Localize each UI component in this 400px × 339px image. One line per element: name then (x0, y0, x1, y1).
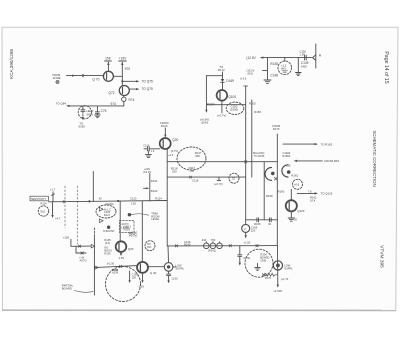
junction x-tick on V4 (274, 177, 277, 180)
wire +15V rail (vertical x=122.3) (121, 62, 123, 85)
dashed note circle on wire y177 (229, 173, 239, 183)
svg-text:C148: C148 (270, 74, 278, 78)
junction x-tick on bottom bus (right) (229, 245, 231, 247)
wire into Q20 base (164, 128, 166, 138)
capacitor C150 on rail (300, 50, 307, 60)
jack feed from bottom bus (167, 246, 170, 263)
wire Q100 collector right (206, 104, 245, 106)
svg-text:LEVEL: LEVEL (151, 217, 160, 221)
svg-text:S183: S183 (78, 124, 85, 128)
svg-text:(1000): (1000) (230, 108, 238, 112)
svg-text:SUPPL: SUPPL (284, 266, 293, 270)
svg-text:D169: D169 (226, 79, 234, 83)
svg-text:SENSITIVITY: SENSITIVITY (31, 198, 47, 201)
wire arrow FROM R158 (points left) (294, 159, 340, 163)
wire y=219.8 between rails (246, 219, 278, 221)
svg-text:Q30: Q30 (128, 247, 134, 251)
resistor R148 branch (263, 58, 279, 80)
svg-text:(40.2): (40.2) (129, 232, 136, 236)
capacitor C116 at Q20 left (143, 143, 160, 153)
resistor R118 label (171, 166, 178, 173)
svg-text:R121: R121 (151, 179, 158, 183)
wire Q120 collector (290, 189, 292, 200)
label C126/R127 (104, 207, 111, 217)
label R162 10.4 (310, 196, 317, 203)
wire stub below (x=52.5) with arrow (51, 202, 61, 221)
svg-text:C149: C149 (301, 61, 309, 65)
capacitor on wire y=219.8 (left) (254, 218, 261, 226)
transistor Q100 (217, 90, 228, 101)
wire R172 to diode (222, 72, 224, 79)
zener R117 above bus (50, 187, 56, 201)
svg-text:C120: C120 (130, 197, 137, 201)
label FROM WIRE (52, 73, 61, 80)
svg-text:TO Q84: TO Q84 (56, 102, 67, 106)
svg-text:+1.5: +1.5 (168, 153, 174, 157)
wire Q40 collector from bus (141, 201, 143, 262)
dashed thermal circle (278, 58, 292, 75)
svg-text:220: 220 (251, 229, 256, 233)
wire Q100 left branch (inverted U) (205, 76, 222, 113)
transistor arc Q110b (282, 164, 291, 177)
label BOARD GND (260, 252, 269, 262)
value label +15V (above Q72 rail) (119, 57, 128, 62)
label FROM R175 (272, 124, 281, 131)
wire y=177 (167, 176, 246, 178)
svg-text:Q120: Q120 (297, 209, 304, 213)
svg-text:SINK: SINK (87, 112, 94, 116)
svg-text:R170: R170 (265, 276, 272, 280)
label PARTIAL BOARD with callout (62, 283, 93, 292)
junction dot on bus (117, 200, 119, 202)
label FROM R120 (above Q20) (160, 121, 169, 128)
svg-text:(+1.70: (+1.70 (281, 277, 289, 281)
svg-text:100: 100 (132, 275, 137, 279)
capacitor C142 branch below bus (238, 246, 250, 266)
transistor Q70 (103, 71, 113, 81)
svg-text:-1.5V: -1.5V (138, 284, 145, 288)
potentiometer b (210, 242, 216, 249)
capacitor below jack (167, 271, 178, 283)
svg-text:(R141): (R141) (208, 249, 216, 253)
label C139 R140 (184, 240, 191, 247)
wire into Q40 base (horizontal) (94, 266, 137, 270)
svg-text:(0.2): (0.2) (105, 241, 110, 245)
dashed node circle (+0.6) (293, 179, 303, 189)
label TO R172 (above Q100) (218, 65, 225, 72)
wire arrow TO R163 (283, 142, 333, 146)
wire Q40 to jack (148, 266, 164, 268)
junction x-tick at V1/bus (256, 245, 258, 247)
label BAL/OSC TO R156 (253, 151, 265, 158)
node symbol (circled x) (56, 80, 59, 83)
chevron input A2 (99, 207, 103, 211)
svg-text:1400: 1400 (301, 64, 307, 68)
svg-text:970: 970 (125, 67, 131, 71)
wire Q100 emitter down (217, 101, 226, 118)
wire +12.5V rail (horizontal y=57.6) (260, 57, 312, 59)
diode D169 (221, 79, 234, 90)
capacitor C118 on wire y177 (214, 177, 223, 186)
potentiometer c (217, 242, 223, 249)
dashed board-ground circle (245, 249, 273, 277)
ground (R148) (264, 80, 271, 83)
thermistor R74 below Q72 (122, 96, 135, 106)
ground (board) (255, 264, 261, 271)
svg-text:(+0.7V): (+0.7V) (214, 182, 223, 186)
partial-board rail x=94.4 (93, 228, 95, 295)
node labels (0.7V) +1.5 at Q20 emitter (168, 149, 178, 157)
wire jack to right stub (173, 266, 176, 268)
transistor Q40 (137, 262, 148, 273)
V4 lower rail to -1.5V (277, 246, 279, 286)
svg-text:+4.7: +4.7 (55, 217, 61, 221)
svg-text:440: 440 (202, 238, 207, 242)
capacitor C130 inside circle (128, 271, 138, 283)
svg-text:+150: +150 (63, 235, 70, 239)
label C165 220 (251, 226, 258, 233)
svg-text:750: 750 (211, 238, 216, 242)
svg-text:42: 42 (99, 196, 102, 200)
svg-text:C116: C116 (143, 143, 150, 147)
supply label +20V (15.2V) (143, 167, 151, 174)
svg-text:-1.5V: -1.5V (118, 256, 125, 260)
transistor Q72 (119, 86, 129, 96)
svg-text:R161: R161 (291, 173, 298, 177)
svg-text:R127: R127 (104, 213, 111, 217)
svg-text:Q72: Q72 (109, 91, 115, 95)
wire Q30 collector from bus (119, 201, 121, 242)
transistor Q120 (286, 200, 297, 211)
wire arrow TO Q126 (297, 189, 332, 195)
value label 15K (above Q70) (105, 57, 112, 62)
label R1A 1.5 inside circle (113, 268, 118, 272)
svg-text:700: 700 (189, 169, 194, 173)
svg-text:GND: GND (261, 258, 267, 262)
bottom bus y=246 (167, 245, 277, 247)
svg-text:(40): (40) (281, 67, 286, 71)
svg-text:Q 40: Q 40 (150, 271, 157, 275)
wire Q70 collector to 15K (107, 62, 109, 71)
lamp/jack circle on V4 (273, 261, 282, 270)
capacitor C75 with ground (95, 106, 106, 115)
dashed ellipse C126 note (96, 205, 116, 218)
svg-text:FROM R15: FROM R15 (325, 159, 340, 163)
resistor R170 (zigzag) (262, 273, 277, 280)
dashed box AUTO LEVEL (120, 221, 135, 233)
svg-text:10.4: 10.4 (310, 199, 316, 203)
svg-text:7AC: 7AC (147, 246, 152, 249)
potentiometer a (204, 242, 210, 249)
label AUTO adj (80, 255, 87, 262)
svg-text:000: 000 (195, 154, 200, 158)
photocell circle on V1 (242, 224, 250, 232)
rail V1 x=245.7 (244, 86, 248, 224)
label R156 R162 (283, 151, 291, 158)
dashed heat-sink circle (78, 106, 91, 119)
wire TO Q84 (horizontal y=106) (56, 102, 124, 107)
arrow V1 bottom (245, 232, 247, 238)
resistor R147 label (195, 151, 202, 158)
resistor chain R121/R122 (x=150) (150, 174, 158, 202)
svg-text:(1.50: (1.50 (172, 277, 178, 281)
svg-text:R136: R136 (104, 251, 111, 255)
svg-text:+1.7: +1.7 (50, 187, 56, 191)
junction x-tick on +15 wire (78, 245, 80, 247)
svg-text:TO Q75: TO Q75 (142, 87, 154, 91)
wire Q20 emitter rail (x=167 down to bottom bus) (166, 149, 168, 246)
big dashed circle (partial board) (106, 267, 141, 302)
transistor Q30 (116, 241, 127, 252)
wire arrow TO Q75 (lower) (129, 87, 153, 91)
labels left of Q30 (104, 238, 112, 255)
svg-text:Q100: Q100 (228, 95, 236, 99)
arrow Q30 emitter (118, 252, 125, 260)
dashed note circle above Q40 (145, 241, 155, 251)
bus y=161.7 (167, 161, 277, 163)
label LOW SUPPL (284, 263, 293, 270)
svg-text:TO Q75: TO Q75 (142, 79, 154, 83)
wire Q70 emitter to rail (113, 75, 122, 77)
label +15.2 R135 (124, 225, 132, 232)
label HEAT SINK (87, 109, 95, 116)
dashed board line (mid) (76, 186, 78, 244)
resistor R117 label (189, 166, 196, 173)
transistor arc Q110a (265, 168, 275, 181)
dashed feedback circle around R147 (177, 147, 206, 170)
svg-text:W1RE: W1RE (53, 76, 61, 80)
svg-text:AUTO: AUTO (80, 258, 87, 262)
svg-text:R172: R172 (218, 68, 225, 72)
label TRIM POINT LEVEL (151, 212, 160, 221)
svg-text:R105: R105 (249, 102, 256, 106)
svg-text:S10: S10 (40, 209, 45, 213)
svg-text:(+1.50: (+1.50 (107, 261, 115, 265)
svg-text:+1.50: +1.50 (244, 240, 251, 244)
wire arrow TO Q75 (upper) (122, 79, 153, 83)
junction dot on bus (88, 200, 90, 202)
dashed ellipse C150 note (226, 102, 244, 114)
transistor dot (no boost) (103, 226, 115, 234)
junction x-tick on bottom bus (left) (175, 245, 177, 247)
rail V3 x=264.2 with R158 (264, 162, 273, 220)
node label (15.2V) (247, 68, 255, 75)
svg-text:R126A: R126A (106, 202, 114, 206)
svg-text:+150: +150 (285, 164, 292, 168)
junction x-tick on Q40 base wire (119, 265, 121, 267)
svg-text:TO Q126: TO Q126 (321, 192, 333, 196)
capacitor C74 with arrow to S183 (78, 106, 85, 128)
svg-text:(0.7V): (0.7V) (171, 149, 178, 153)
wire +15 corner into board (63, 235, 95, 248)
svg-text:R135: R135 (124, 228, 131, 232)
svg-text:SCHEMATIC CORRECTION: SCHEMATIC CORRECTION (372, 130, 377, 186)
dashed board line (left) (64, 186, 66, 228)
svg-text:R156: R156 (254, 222, 261, 226)
svg-text:1.5: 1.5 (151, 149, 155, 153)
svg-text:R148: R148 (270, 62, 278, 66)
svg-text:+15V: +15V (119, 57, 127, 61)
label 440 750 (202, 238, 216, 242)
stub wire with tick (76, 246, 86, 254)
jack circle (low supply) (164, 263, 173, 272)
svg-text:1.5P: 1.5P (300, 53, 306, 57)
svg-text:Page 14 of 15: Page 14 of 15 (383, 51, 389, 83)
svg-text:R175: R175 (273, 127, 280, 131)
main bus y=201 (48, 201, 167, 202)
svg-text:10: 10 (232, 176, 235, 180)
svg-text:R1560: R1560 (283, 154, 291, 158)
svg-text:KCA,390/1268: KCA,390/1268 (9, 49, 14, 79)
svg-text:(+3.6: (+3.6 (240, 77, 247, 81)
svg-text:010: 010 (172, 169, 177, 173)
svg-text:+0.6: +0.6 (294, 183, 300, 187)
svg-text:(+0.7V): (+0.7V) (217, 114, 226, 118)
svg-text:R140: R140 (184, 243, 191, 247)
svg-text:BOARD: BOARD (62, 287, 72, 291)
capacitor C149 branch with ground (298, 58, 308, 72)
rail V4 x=277.3 upper (276, 134, 278, 246)
node junction on rail (121, 80, 123, 82)
svg-text:(12.5V: (12.5V (246, 56, 256, 60)
svg-text:974: 974 (111, 102, 117, 106)
rail V2 x=251.8 with R150 (252, 100, 262, 177)
label LOW SUPPL (jack) (176, 264, 185, 271)
transistor dot (trim) with callout (128, 213, 149, 216)
junction x-tick at V1/bus161 crossing (245, 161, 247, 163)
junction tick on bus (63, 200, 65, 203)
svg-text:R158: R158 (266, 194, 273, 198)
bus label C120 (130, 197, 137, 206)
svg-text:SUPPL: SUPPL (176, 267, 185, 271)
svg-text:TO R163: TO R163 (321, 142, 333, 146)
ground (C116) (145, 151, 151, 158)
svg-text:R150: R150 (254, 110, 261, 114)
svg-text:R120: R120 (161, 124, 168, 128)
svg-text:VTVM 395: VTVM 395 (379, 245, 385, 268)
transistor Q20 (160, 138, 171, 149)
svg-text:N BOOST: N BOOST (103, 229, 115, 233)
ground (Q120) (288, 211, 297, 221)
svg-text:R74: R74 (129, 98, 135, 102)
svg-text:TO R156: TO R156 (254, 154, 265, 158)
ground (thermal) (282, 71, 287, 72)
svg-text:R124: R124 (155, 197, 162, 201)
ground (C75) (95, 115, 101, 118)
arrow into R121 chain (144, 187, 150, 189)
off-page connector A (313, 44, 322, 68)
svg-text:7.6: 7.6 (308, 189, 312, 193)
svg-text:+1.50V: +1.50V (273, 289, 282, 293)
svg-text:R160: R160 (278, 190, 285, 194)
svg-text:Q20: Q20 (172, 138, 178, 142)
svg-text:C75: C75 (101, 109, 107, 113)
junction x-tick on wire y177 (189, 176, 191, 178)
svg-text:C118: C118 (192, 178, 199, 182)
ground (C149) (296, 73, 302, 76)
svg-text:(8.0): (8.0) (248, 71, 254, 75)
arrow V4 bottom with -1.5V (273, 285, 282, 294)
svg-text:R122: R122 (151, 189, 158, 193)
svg-text:R114: R114 (41, 202, 48, 206)
node label (+0.2V)(40.2V) (129, 231, 138, 238)
svg-text:15K: 15K (105, 57, 112, 61)
capacitor on wire y=219.8 (right) (268, 218, 271, 226)
SENSITIVITY box (30, 196, 48, 205)
labels R138 R139 below wire (112, 268, 119, 275)
svg-text:(10%): (10%) (201, 121, 209, 125)
svg-text:Q 70: Q 70 (93, 78, 100, 82)
svg-text:1.50: 1.50 (131, 202, 137, 206)
node label (+0.6V)(10%) (200, 118, 209, 125)
arrow Q40 emitter -1.5V (138, 273, 145, 288)
wire into Q70 base (67, 74, 104, 77)
chevron input A4 (99, 219, 103, 223)
wire branch x=93.3 above bus (92, 172, 94, 202)
svg-text:R1A: R1A (113, 268, 118, 272)
dashed switch circle S10 (38, 206, 48, 216)
